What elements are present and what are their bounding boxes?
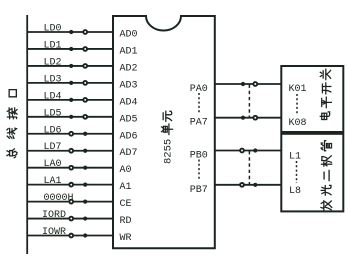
svg-text:AD5: AD5 (120, 114, 138, 125)
svg-text:0000H: 0000H (44, 193, 74, 204)
svg-text:K08: K08 (289, 118, 307, 129)
svg-text:AD1: AD1 (120, 46, 138, 57)
svg-text:LA1: LA1 (44, 176, 62, 187)
svg-text:LD1: LD1 (44, 40, 62, 51)
svg-text:PB0: PB0 (190, 151, 208, 162)
svg-text:RD: RD (120, 216, 132, 227)
svg-text:PA7: PA7 (190, 118, 208, 129)
svg-text:WR: WR (120, 233, 132, 244)
svg-text:AD2: AD2 (120, 63, 138, 74)
svg-text:IORD: IORD (42, 210, 66, 221)
svg-text:LD4: LD4 (44, 91, 62, 102)
svg-text:PB7: PB7 (190, 185, 208, 196)
svg-text:8255: 8255 (163, 139, 175, 164)
svg-text:IOWR: IOWR (42, 227, 66, 238)
svg-text:CE: CE (120, 199, 132, 210)
svg-text:AD6: AD6 (120, 131, 138, 142)
svg-text:A0: A0 (120, 165, 132, 176)
svg-text:LD2: LD2 (44, 57, 62, 68)
svg-text:LD0: LD0 (44, 24, 62, 35)
svg-text:K01: K01 (289, 84, 307, 95)
svg-text:L8: L8 (289, 186, 301, 197)
svg-text:LA0: LA0 (44, 159, 62, 170)
svg-text:PA0: PA0 (190, 84, 208, 95)
svg-text:LD5: LD5 (44, 108, 62, 119)
svg-text:A1: A1 (120, 182, 132, 193)
svg-text:AD3: AD3 (120, 80, 138, 91)
svg-text:LD7: LD7 (44, 142, 62, 153)
svg-text:AD7: AD7 (120, 148, 138, 159)
svg-text:LD6: LD6 (44, 125, 62, 136)
svg-text:AD4: AD4 (120, 97, 138, 108)
svg-text:L1: L1 (289, 151, 301, 162)
svg-text:AD0: AD0 (120, 30, 138, 41)
svg-text:LD3: LD3 (44, 74, 62, 85)
